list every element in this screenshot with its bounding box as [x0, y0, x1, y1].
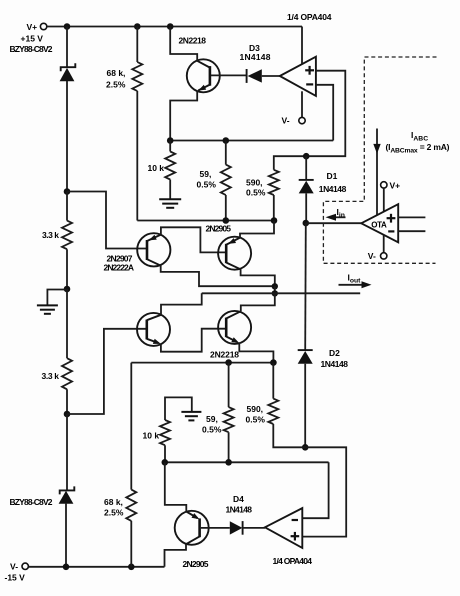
wire OTA -input [398, 230, 425, 232]
op-amp U2 1/4 OPA404 bottom [265, 508, 302, 548]
junction rail lower / 59 [225, 359, 232, 366]
junction divider node upper [64, 188, 71, 195]
junction node B lower collectors [272, 290, 278, 296]
wire Q1 base to D3 [211, 74, 246, 76]
terminal OTA V+ [381, 182, 387, 188]
transistor Q6 2N2905 bottom [175, 511, 209, 545]
svg-text:D1: D1 [327, 171, 338, 181]
svg-text:V-: V- [282, 115, 290, 125]
svg-text:BZY88-C8V2: BZY88-C8V2 [10, 44, 53, 54]
wire Q3 emitter hook [240, 221, 274, 238]
transistor Q4 2N2218 lower-left [137, 313, 170, 347]
svg-text:2N2218: 2N2218 [210, 350, 239, 360]
junction rail / 10k lower / Q6 emitter [162, 459, 169, 466]
wire OTA V- stub [383, 235, 385, 253]
wire node B to Q5 collector [241, 293, 275, 311]
wire Q6 base to D4 [201, 527, 230, 529]
wire U1 V+ supply [301, 27, 303, 64]
resistor R2 10k upper [165, 141, 175, 200]
junction rail / 59 [223, 137, 230, 144]
svg-text:10 k: 10 k [143, 431, 160, 441]
diode D3 1N4148 [247, 69, 280, 83]
junction ground node [64, 286, 71, 293]
svg-text:10 k: 10 k [148, 163, 165, 173]
wire zener D5 to node [66, 81, 68, 192]
op-amp U1 1/4 OPA404 top [280, 57, 316, 96]
wire Q4 emitter to Q5 base [161, 329, 226, 352]
svg-text:0.5%: 0.5% [197, 179, 217, 189]
terminal V- (-15 V) [22, 563, 28, 569]
junction node A upper collectors [272, 283, 278, 289]
svg-text:68 k,: 68 k, [104, 497, 123, 507]
transistor Q1 2N2218 top [187, 59, 220, 93]
wire Q2 collector to output node A [161, 266, 275, 287]
svg-text:2N2222A: 2N2222A [104, 263, 135, 273]
wire node A to node B [274, 286, 276, 293]
wire U1 +input feedback [306, 71, 345, 157]
ground symbol left [37, 305, 58, 313]
wire emitter rail lower (y=462.3) [165, 461, 329, 463]
junction V- rail / 68k lower [128, 564, 135, 571]
svg-text:590,: 590, [246, 178, 263, 188]
wire Q4 collector to node B [161, 293, 202, 315]
wire Q1 emitter [170, 91, 197, 141]
transistor Q2 2N2907/2N2222A [137, 233, 170, 266]
junction top rail / zener [64, 23, 71, 30]
svg-text:1N4148: 1N4148 [321, 359, 349, 369]
resistor R9 590 lower [268, 363, 305, 448]
svg-text:V+: V+ [27, 22, 38, 32]
svg-text:1N4148: 1N4148 [226, 504, 253, 514]
wire D1 top lead [305, 156, 307, 180]
svg-text:V+: V+ [390, 180, 401, 190]
wire main rail upper (y=220.5) [137, 220, 274, 222]
junction rail / 10k [167, 137, 174, 144]
op-amp U3 OTA [361, 204, 398, 242]
svg-text:2.5%: 2.5% [106, 80, 126, 90]
svg-text:0.5%: 0.5% [202, 425, 222, 435]
resistor R1 68k upper [132, 27, 142, 221]
wire node B to Q4 collector [202, 292, 275, 294]
junction rail / 59 lower [225, 459, 232, 466]
wire D1 to OTA output node [305, 193, 307, 223]
svg-text:V-: V- [10, 562, 18, 572]
ground symbol lower [181, 412, 201, 421]
svg-text:+15 V: +15 V [21, 34, 44, 44]
resistor R10 68k lower [126, 490, 136, 567]
svg-text:1N4148: 1N4148 [240, 52, 271, 62]
ground symbol under 10k upper [159, 199, 181, 208]
wire U1 -input feedback [316, 85, 333, 141]
svg-text:2.5%: 2.5% [104, 507, 124, 517]
wire Q6 collector [165, 544, 187, 567]
junction D2 bottom node [302, 444, 309, 451]
svg-text:1/4 OPA404: 1/4 OPA404 [287, 12, 332, 22]
wire main rail lower (y=362.6) [131, 362, 273, 364]
wire Q2 emitter to Q3 base [161, 227, 226, 252]
zener diode D6 BZY88-C8V2 lower [59, 486, 75, 503]
svg-text:D2: D2 [329, 348, 340, 358]
arrow Iin [326, 214, 346, 221]
resistor R6 3.3k lower [62, 358, 72, 414]
diode D1 1N4148 [299, 180, 314, 194]
wire U1 V- stub [301, 91, 303, 117]
svg-text:68 k,: 68 k, [107, 68, 126, 78]
arrow Iout [339, 281, 372, 288]
wire OTA +input [398, 216, 425, 218]
terminal V+ (+15 V) [40, 23, 46, 29]
wire top +15V rail [47, 26, 302, 28]
resistor R4 590 upper [269, 170, 279, 221]
wire Q2 base feed [67, 192, 146, 249]
wire 68k lower top lead [130, 363, 132, 490]
wire OTA V+ stub [383, 188, 385, 211]
transistor Q5 2N2218 lower-middle [218, 311, 251, 346]
wire D2 bottom lead [304, 364, 306, 448]
wire emitter rail upper (y=140.5) [170, 140, 333, 142]
resistor R7 10k lower [160, 420, 170, 462]
svg-text:-15 V: -15 V [5, 573, 26, 583]
svg-text:OTA: OTA [371, 220, 387, 229]
svg-text:2N2905: 2N2905 [183, 559, 209, 569]
svg-text:2N2905: 2N2905 [206, 224, 232, 234]
junction D1 top node [303, 153, 310, 160]
zener diode D5 BZY88-C8V2 upper [60, 63, 76, 81]
wire V- rail [29, 566, 165, 568]
terminal U1 V- [299, 117, 305, 123]
svg-text:590,: 590, [247, 404, 264, 414]
wire U2 +input feedback [302, 447, 346, 536]
wire U2 -input feedback [302, 462, 328, 518]
svg-text:3.3 k: 3.3 k [42, 371, 60, 381]
junction rail lower / 590 / Q5 emitter [270, 359, 277, 366]
svg-text:(IABCmax = 2 mA): (IABCmax = 2 mA) [386, 142, 450, 154]
wire 10k lower to ground [165, 397, 192, 420]
svg-text:Iout: Iout [348, 273, 362, 285]
svg-text:59,: 59, [206, 414, 218, 424]
junction main rail / 59 [223, 217, 230, 224]
wire Q5 emitter hook [239, 343, 273, 363]
junction top rail / 68k [134, 23, 141, 30]
svg-text:IABC: IABC [411, 130, 428, 142]
wire zener D6 to V- rail [65, 504, 67, 567]
svg-text:0.5%: 0.5% [246, 415, 266, 425]
svg-text:1N4148: 1N4148 [319, 184, 347, 194]
wire OTA output [306, 222, 362, 224]
wire Q3 collector to node A [241, 269, 275, 286]
wire left column mid [66, 289, 68, 358]
arrow IABC bias current [373, 129, 380, 216]
wire zener D5 top lead [66, 27, 68, 68]
svg-text:3.3 k: 3.3 k [42, 230, 59, 240]
wire Iout net [275, 292, 360, 294]
resistor R3 59 upper [221, 141, 231, 221]
junction top rail / Q1 collector [167, 23, 174, 30]
wire zener D6 top lead [66, 414, 68, 490]
wire Q1 collector [170, 27, 197, 62]
junction divider node lower [64, 411, 71, 418]
wire node to 590 upper [274, 156, 306, 170]
svg-text:D4: D4 [233, 494, 244, 504]
svg-text:1/4 OPA404: 1/4 OPA404 [273, 556, 313, 566]
transistor Q3 2N2905 upper [218, 237, 251, 270]
diode D2 1N4148 [298, 350, 313, 364]
wire Q6 emitter [165, 462, 187, 511]
resistor R8 59 lower [224, 363, 234, 463]
svg-text:2N2218: 2N2218 [179, 36, 207, 46]
wire ground stub [47, 290, 67, 305]
junction OTA output node [303, 220, 310, 227]
junction main rail / 590 / Q3 emitter [271, 217, 278, 224]
svg-text:BZY88-C8V2: BZY88-C8V2 [10, 497, 53, 507]
svg-text:0.5%: 0.5% [246, 187, 266, 197]
junction V- rail / zener [63, 564, 70, 571]
wire D2 top lead [304, 223, 307, 350]
wire Q4 base feed [67, 329, 146, 414]
terminal OTA V- [381, 253, 387, 259]
OTA dashed boundary [323, 57, 436, 263]
resistor R5 3.3k upper [62, 192, 72, 290]
diode D4 1N4148 [230, 521, 265, 535]
svg-text:59,: 59, [200, 169, 212, 179]
svg-text:V-: V- [368, 251, 376, 261]
